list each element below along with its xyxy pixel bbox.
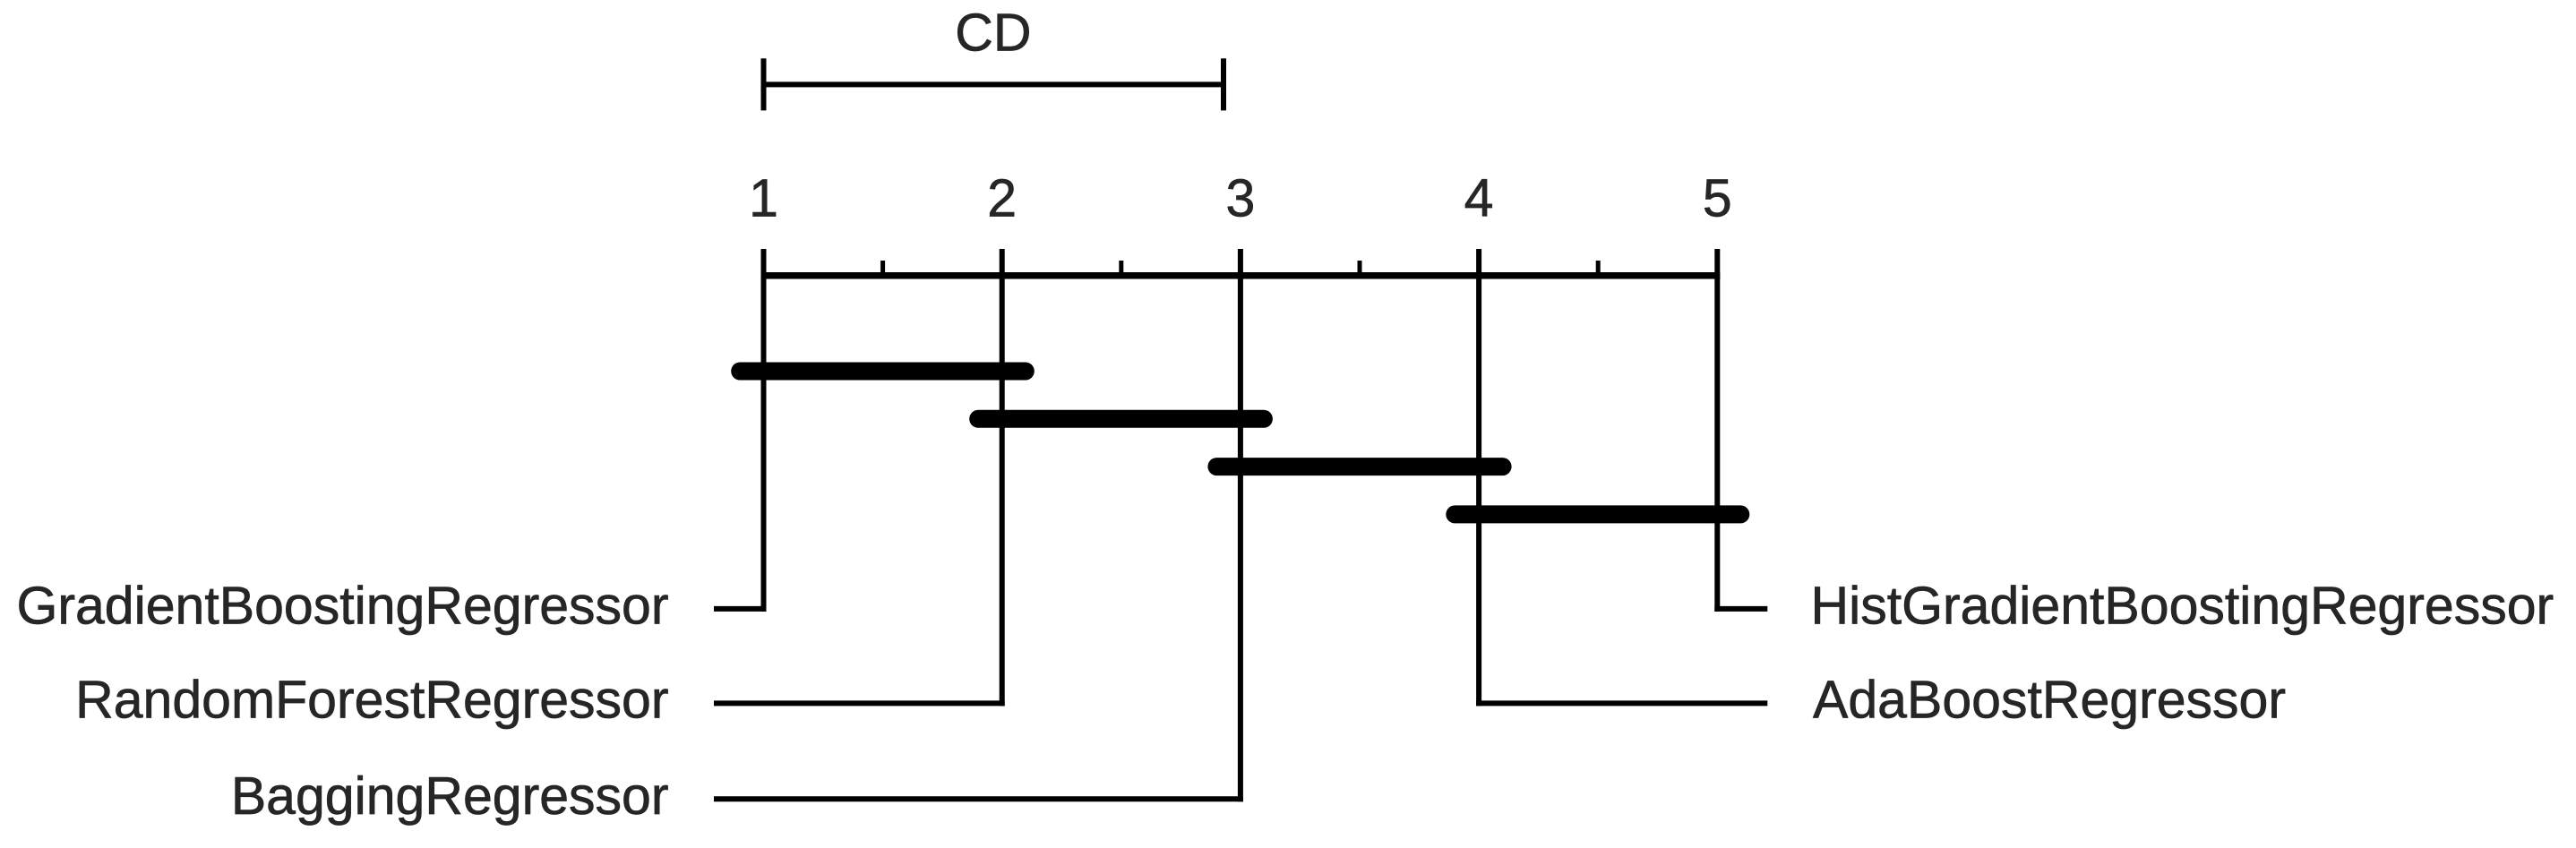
- minor tick 1.5: [880, 261, 885, 278]
- axis line: [761, 272, 1721, 279]
- svg-text:2: 2: [987, 168, 1017, 227]
- svg-text:HistGradientBoostingRegressor: HistGradientBoostingRegressor: [1811, 577, 2555, 636]
- svg-text:5: 5: [1703, 168, 1732, 227]
- svg-text:GradientBoostingRegressor: GradientBoostingRegressor: [16, 577, 668, 636]
- svg-text:AdaBoostRegressor: AdaBoostRegressor: [1813, 671, 2286, 730]
- svg-text:RandomForestRegressor: RandomForestRegressor: [75, 671, 668, 730]
- connector HistGradientBoostingRegressor: [1714, 606, 1767, 612]
- drop line rank 2 (RandomForestRegressor): [1000, 249, 1005, 706]
- connector RandomForestRegressor: [714, 700, 1005, 706]
- minor tick 2.5: [1119, 261, 1123, 278]
- drop line rank 4 (AdaBoostRegressor): [1476, 249, 1481, 706]
- svg-text:3: 3: [1225, 168, 1255, 227]
- connector BaggingRegressor: [714, 796, 1243, 801]
- CD left cap: [761, 58, 767, 110]
- clique bar 1-2: [740, 363, 1026, 381]
- clique bar 3-4: [1216, 458, 1502, 475]
- minor tick 4.5: [1596, 261, 1601, 278]
- drop line rank 3 (BaggingRegressor): [1238, 249, 1243, 801]
- clique bar 2-3: [978, 410, 1264, 428]
- svg-text:BaggingRegressor: BaggingRegressor: [231, 767, 669, 826]
- svg-text:4: 4: [1464, 168, 1494, 227]
- minor tick 3.5: [1358, 261, 1362, 278]
- connector GradientBoostingRegressor: [714, 606, 767, 612]
- connector AdaBoostRegressor: [1476, 700, 1767, 706]
- CD right cap: [1221, 58, 1226, 110]
- svg-text:CD: CD: [955, 3, 1031, 62]
- CD interval line: [761, 81, 1227, 87]
- drop line rank 5 (HistGradientBoostingRegressor): [1714, 249, 1720, 612]
- clique bar 4-5: [1455, 505, 1740, 523]
- drop line rank 1 (GradientBoostingRegressor): [761, 249, 767, 612]
- svg-text:1: 1: [749, 168, 778, 227]
